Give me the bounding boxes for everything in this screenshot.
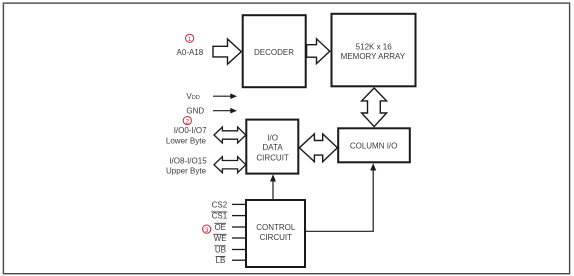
block DECODER: [243, 15, 306, 87]
label A0-A18: [177, 48, 204, 57]
power VDD arrow: [213, 93, 237, 99]
block COLUMN I/O: [338, 128, 410, 162]
callout 2: [183, 117, 191, 126]
svg-text:I/O0-I/O7: I/O0-I/O7: [174, 126, 207, 135]
svg-text:512K x 16: 512K x 16: [356, 43, 393, 52]
block CONTROL CIRCUIT: [246, 200, 305, 267]
svg-text:1: 1: [188, 36, 192, 43]
block I/O DATA CIRCUIT: [246, 120, 298, 174]
svg-text:3: 3: [205, 227, 209, 234]
wire CONTROL CIRCUIT to COLUMN I/O: [306, 163, 376, 231]
pin CS2: [212, 200, 246, 209]
bus arrow lower byte to I/O DATA CIRCUIT: [214, 127, 246, 143]
svg-text:MEMORY ARRAY: MEMORY ARRAY: [341, 52, 406, 61]
wire CONTROL CIRCUIT to I/O DATA CIRCUIT: [270, 174, 276, 199]
pin UB: [214, 245, 246, 254]
svg-text:Lower Byte: Lower Byte: [166, 137, 207, 146]
pin LB: [216, 256, 246, 265]
bus arrow I/O DATA CIRCUIT to COLUMN I/O: [299, 134, 337, 162]
block MEMORY ARRAY: [332, 14, 416, 87]
label I/O0-I/O7 Lower Byte: [166, 126, 207, 146]
svg-text:COLUMN I/O: COLUMN I/O: [350, 142, 398, 151]
pin WE: [213, 234, 246, 243]
svg-text:Upper Byte: Upper Byte: [166, 167, 207, 176]
callout 3: [203, 225, 211, 234]
svg-text:LB: LB: [216, 256, 226, 265]
svg-text:I/O: I/O: [267, 133, 278, 142]
svg-text:CIRCUIT: CIRCUIT: [260, 233, 293, 242]
svg-text:DATA: DATA: [263, 143, 284, 152]
svg-text:UB: UB: [215, 245, 226, 254]
label GND: [186, 107, 204, 116]
svg-text:GND: GND: [186, 107, 204, 116]
svg-text:CONTROL: CONTROL: [256, 223, 296, 232]
svg-text:I/O8-I/O15: I/O8-I/O15: [169, 157, 207, 166]
svg-text:CIRCUIT: CIRCUIT: [256, 153, 289, 162]
svg-text:OE: OE: [214, 223, 226, 232]
svg-text:DECODER: DECODER: [254, 48, 294, 57]
svg-text:A0-A18: A0-A18: [177, 48, 204, 57]
label I/O8-I/O15 Upper Byte: [166, 157, 207, 176]
svg-text:CS2: CS2: [212, 200, 228, 209]
svg-text:WE: WE: [214, 234, 227, 243]
svg-text:CS1: CS1: [212, 212, 228, 221]
pin CS1: [211, 212, 246, 221]
label VDD: [186, 92, 199, 101]
bus arrow upper byte to I/O DATA CIRCUIT: [214, 157, 246, 173]
bus arrow MEMORY ARRAY to COLUMN I/O: [362, 88, 387, 127]
bus arrow A0-A18 into DECODER: [213, 39, 241, 64]
ground GND arrow: [213, 108, 237, 114]
svg-text:2: 2: [186, 118, 190, 125]
bus arrow DECODER to MEMORY ARRAY: [307, 39, 330, 64]
pin OE: [214, 223, 246, 232]
callout 1: [186, 34, 194, 43]
